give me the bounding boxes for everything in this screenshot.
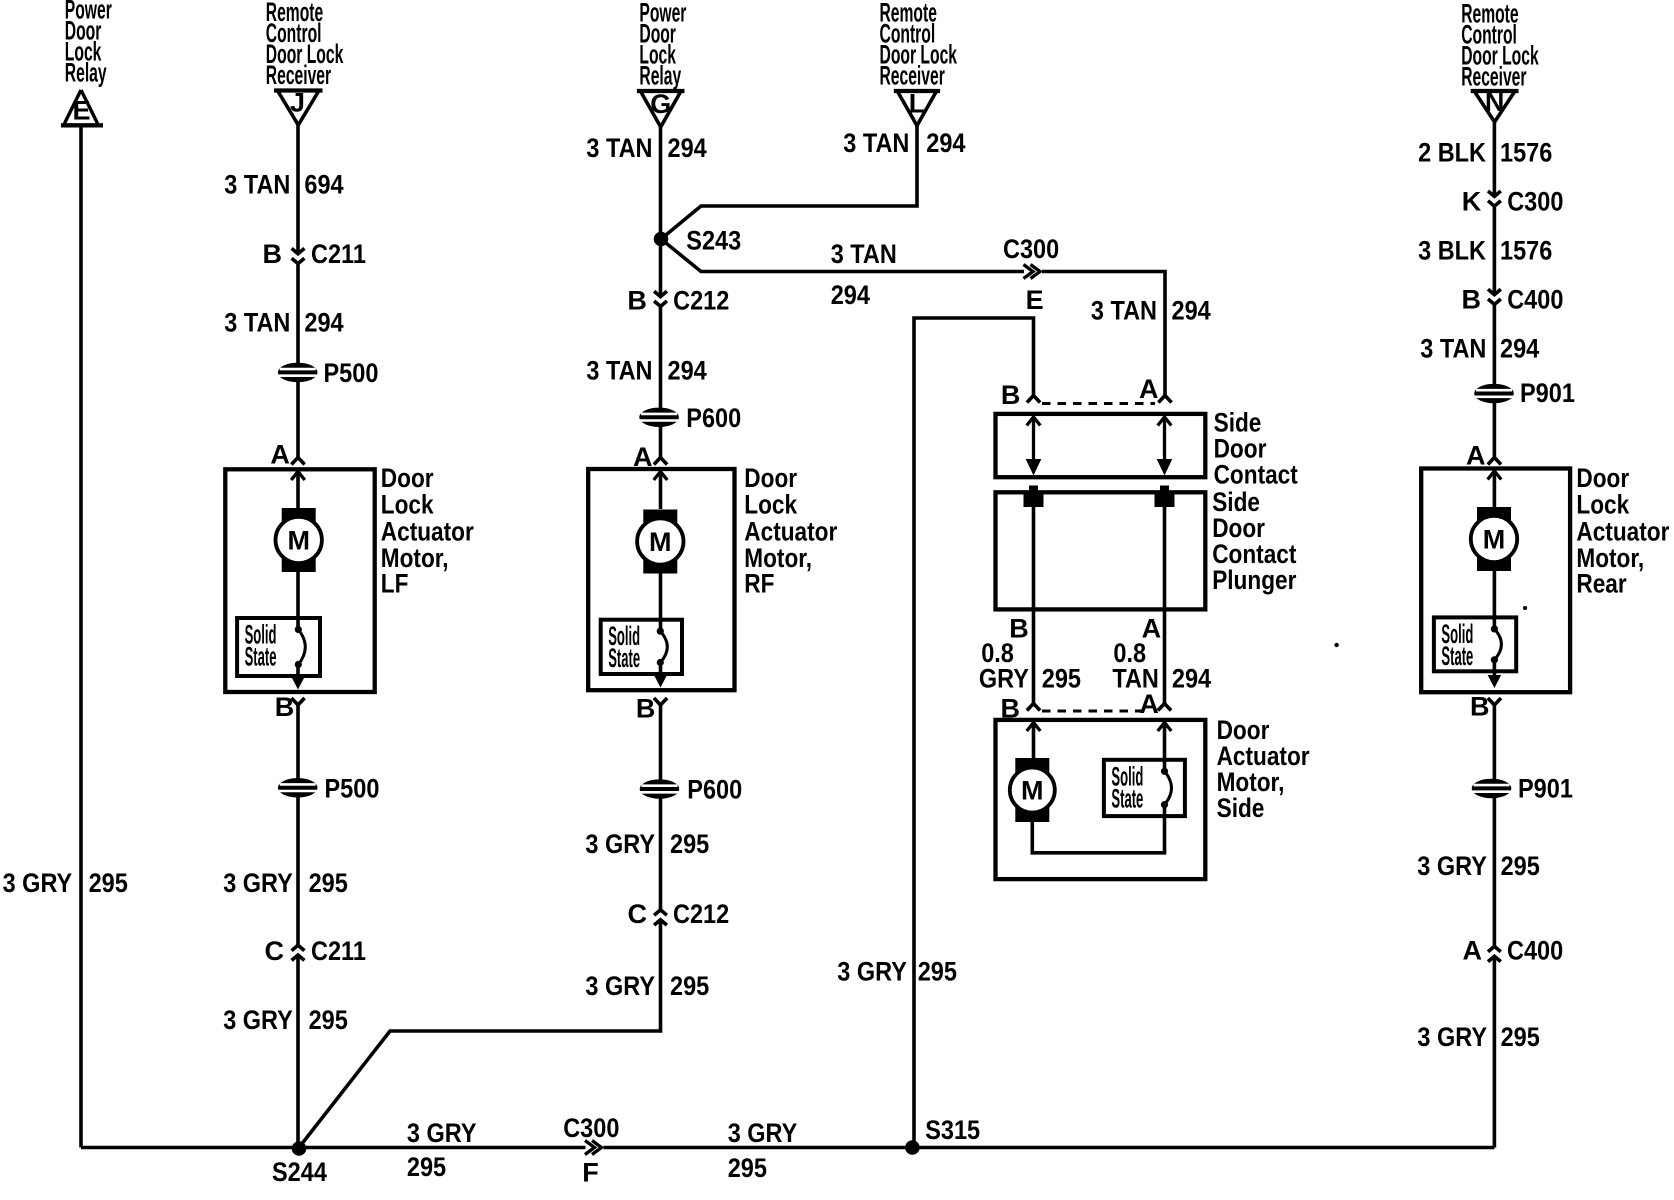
label: Door Lock Actuator Motor, LF (381, 463, 474, 599)
wire label 3 GRY 295 (col2 lower) (585, 971, 709, 1001)
label: Power Door Lock Relay (terminal E) (65, 0, 112, 87)
wire: C212 pin C to splice S244 (3 GRY 295) (299, 920, 661, 1148)
svg-text:P600: P600 (687, 775, 742, 805)
svg-text:295: 295 (89, 868, 128, 898)
connector C300 pin F (563, 1113, 619, 1187)
svg-text:3 TAN: 3 TAN (586, 133, 652, 163)
svg-text:N: N (1485, 87, 1505, 117)
svg-text:C212: C212 (673, 285, 729, 315)
label: Door Actuator Motor, Side (1217, 715, 1310, 823)
svg-text:L: L (909, 89, 926, 119)
terminal N (Remote Control Door Lock Receiver) (1471, 87, 1519, 122)
svg-text:A: A (1139, 374, 1159, 404)
wire label 3 GRY 295 (col4 lower) (1417, 1022, 1539, 1052)
pin B of door lock actuator motor rear (1470, 691, 1501, 721)
dashed connector interface at side door contact (1042, 402, 1155, 405)
solid state module (rear) (1434, 617, 1516, 671)
wire label 3 GRY 295 (col1 upper) (223, 868, 348, 898)
svg-text:3 TAN: 3 TAN (1091, 295, 1157, 325)
svg-text:3 GRY: 3 GRY (223, 1005, 293, 1035)
svg-text:C211: C211 (311, 936, 366, 966)
svg-text:Receiver: Receiver (266, 60, 332, 90)
wire label 0.8 GRY 295 (979, 638, 1081, 694)
svg-text:3 TAN: 3 TAN (224, 170, 290, 200)
svg-text:J: J (290, 88, 305, 118)
label: Remote Control Door Lock Receiver (terminal L) (880, 0, 958, 90)
wire label 3 GRY / 295 (bus left) (407, 1118, 477, 1182)
svg-text:Rear: Rear (1576, 568, 1627, 598)
component box: Side Door Contact Plunger (996, 492, 1206, 609)
svg-text:Side: Side (1217, 793, 1265, 823)
splice S244 (272, 1141, 327, 1187)
svg-text:E: E (1026, 285, 1044, 315)
wire label 3 TAN 294 (col3 top) (843, 128, 965, 158)
svg-text:E: E (72, 96, 90, 126)
svg-text:B: B (275, 692, 295, 722)
svg-text:RF: RF (744, 568, 774, 598)
svg-text:Receiver: Receiver (880, 60, 946, 90)
solid state module (LF) (237, 618, 320, 676)
wire label 3 TAN / 294 (S243 branch) (831, 239, 897, 310)
connector C211 pin C (265, 936, 366, 966)
svg-text:P600: P600 (686, 403, 741, 433)
grommet P600 (lower) (640, 775, 742, 805)
wire: LF internal feed with arrow (291, 472, 305, 510)
svg-text:3 TAN: 3 TAN (831, 239, 897, 269)
svg-text:G: G (650, 89, 671, 119)
grommet P600 (upper) (640, 403, 742, 433)
wire label 3 TAN 294 (col4) (1420, 333, 1539, 363)
svg-text:Relay: Relay (65, 57, 107, 87)
svg-text:State: State (245, 642, 277, 672)
wire: terminal G through splice S243 to C212 pin B (3 TAN 294) (659, 127, 663, 297)
wire label 3 TAN 294 (224, 307, 343, 337)
pin A of door lock actuator motor RF (633, 442, 667, 472)
label: Power Door Lock Relay (terminal G) (639, 0, 686, 90)
svg-text:295: 295 (309, 868, 348, 898)
svg-text:B: B (1470, 691, 1490, 721)
svg-text:Plunger: Plunger (1212, 565, 1297, 595)
wire: C300 pin E to side door contact pin A (3 TAN 294) (1042, 272, 1165, 396)
label: Door Lock Actuator Motor, Rear (1576, 463, 1669, 599)
wire label 2 BLK 1576 (1418, 137, 1552, 167)
label: Remote Control Door Lock Receiver (terminal J) (266, 0, 344, 90)
wire label 3 GRY 295 (S315 drop) (837, 957, 957, 987)
pin B of door lock actuator motor LF (275, 692, 305, 722)
svg-text:M: M (287, 526, 310, 556)
wire: terminal J to connector C211 pin B (3 TAN 694) (296, 125, 300, 254)
wire: side motor bottom link (1032, 805, 1164, 853)
label: Door Lock Actuator Motor, RF (744, 463, 837, 599)
svg-text:Lock: Lock (381, 490, 435, 520)
svg-text:1576: 1576 (1500, 235, 1552, 265)
svg-text:294: 294 (1172, 295, 1211, 325)
svg-text:S244: S244 (272, 1157, 327, 1187)
svg-text:3 TAN: 3 TAN (843, 128, 909, 158)
component box: Door Actuator Motor Side (996, 720, 1206, 879)
svg-text:3 BLK: 3 BLK (1418, 235, 1486, 265)
wire: rear internal feed with arrow (1488, 471, 1502, 509)
svg-text:B: B (1462, 284, 1482, 314)
svg-text:B: B (1001, 380, 1021, 410)
wire: side door contact pin B branch to splice S315 (3 GRY 295) (914, 318, 1034, 1148)
svg-text:Lock: Lock (1576, 490, 1630, 520)
wire label 3 TAN 694 (224, 170, 343, 200)
wire: C211 to P500 to motor LF pin A (3 TAN 294) (296, 263, 300, 458)
svg-text:B: B (636, 693, 656, 723)
svg-text:Door: Door (381, 463, 434, 493)
splice S243 (654, 226, 742, 256)
svg-text:294: 294 (1172, 664, 1211, 694)
svg-text:Lock: Lock (744, 490, 798, 520)
svg-text:M: M (1021, 776, 1044, 806)
solid state module (RF) (601, 620, 682, 674)
svg-text:F: F (582, 1157, 599, 1187)
wire: RF motor to solid state (659, 573, 663, 631)
label: Side Door Contact (1214, 407, 1298, 489)
svg-text:C211: C211 (311, 239, 366, 269)
svg-text:Relay: Relay (639, 60, 681, 90)
solid state module (side) (1104, 760, 1185, 816)
wire label 3 GRY 295 (col1 lower) (223, 1005, 348, 1035)
wire: RF solid state to pin B with arrow (654, 663, 668, 688)
svg-text:3 TAN: 3 TAN (1420, 333, 1486, 363)
svg-text:694: 694 (304, 170, 343, 200)
wire: terminal E to S244 bus (3 GRY 295) (79, 127, 83, 1148)
svg-text:3 TAN: 3 TAN (586, 355, 652, 385)
svg-text:S243: S243 (686, 226, 741, 256)
svg-text:3 GRY: 3 GRY (728, 1118, 798, 1148)
grommet P500 (upper) (278, 358, 378, 388)
svg-text:3 GRY: 3 GRY (585, 971, 655, 1001)
svg-text:Contact: Contact (1214, 459, 1298, 489)
svg-text:C212: C212 (673, 899, 729, 929)
svg-text:295: 295 (918, 957, 957, 987)
connector C400 pin A (1463, 935, 1564, 965)
svg-text:295: 295 (309, 1005, 348, 1035)
svg-text:3 GRY: 3 GRY (585, 829, 655, 859)
svg-text:C300: C300 (563, 1113, 619, 1143)
svg-text:C400: C400 (1507, 935, 1563, 965)
motor M (RF actuator) (637, 510, 683, 574)
component box: Side Door Contact (996, 414, 1206, 477)
svg-text:1576: 1576 (1500, 137, 1552, 167)
svg-text:GRY: GRY (979, 664, 1029, 694)
svg-text:2 BLK: 2 BLK (1418, 137, 1486, 167)
svg-text:294: 294 (668, 355, 707, 385)
svg-text:294: 294 (1500, 333, 1539, 363)
svg-text:K: K (1462, 186, 1482, 216)
wire: motor rear pin B to C400 pin A (3 GRY 295) (1493, 705, 1497, 947)
terminal E (Power Door Lock Relay, up triangle) (61, 90, 103, 126)
svg-text:P901: P901 (1520, 378, 1575, 408)
connector C300 pin E (1003, 234, 1059, 315)
svg-text:3 TAN: 3 TAN (224, 307, 290, 337)
wire: motor RF pin B to C212 pin C (3 GRY 295) (659, 705, 663, 910)
svg-text:P901: P901 (1518, 773, 1573, 803)
label: Side Door Contact Plunger (1212, 487, 1297, 595)
svg-text:B: B (627, 285, 647, 315)
grommet P901 (lower) (1472, 773, 1573, 803)
svg-text:3 GRY: 3 GRY (1417, 1022, 1487, 1052)
wire label 0.8 TAN 294 (1112, 638, 1211, 694)
pin label A (plunger) (1142, 613, 1162, 643)
svg-text:295: 295 (407, 1152, 446, 1182)
svg-text:3 GRY: 3 GRY (407, 1118, 477, 1148)
svg-text:S315: S315 (925, 1115, 980, 1145)
label: Remote Control Door Lock Receiver (terminal N) (1461, 0, 1539, 91)
svg-text:295: 295 (670, 971, 709, 1001)
component box: Door Lock Actuator Motor Rear (1421, 469, 1570, 693)
component box: Door Lock Actuator Motor LF (225, 469, 374, 692)
pin A of side door contact (1139, 374, 1172, 404)
svg-text:A: A (1463, 935, 1483, 965)
pin label B (plunger) (1009, 613, 1029, 643)
pin B of door actuator motor side (1001, 694, 1041, 724)
svg-text:C300: C300 (1003, 234, 1059, 264)
svg-text:LF: LF (381, 568, 409, 598)
pin B of side door contact (1001, 380, 1040, 410)
svg-text:State: State (608, 643, 640, 673)
wire: ground bus S244 to C300 pin F segment (81, 1146, 586, 1150)
motor M (LF actuator) (276, 508, 322, 572)
wire: LF solid state to pin B with arrow (291, 664, 305, 690)
svg-text:B: B (263, 239, 283, 269)
svg-text:P500: P500 (325, 773, 380, 803)
wire: rear motor to solid state (1493, 571, 1497, 629)
svg-text:295: 295 (670, 829, 709, 859)
wire label 3 BLK 1576 (1418, 235, 1552, 265)
plunger symbol (B side) (1024, 486, 1044, 508)
wire: side motor A feed with arrow (1158, 723, 1172, 772)
svg-text:294: 294 (926, 128, 965, 158)
svg-text:3 GRY: 3 GRY (223, 868, 293, 898)
splice S315 (905, 1115, 980, 1155)
wire: terminal N to connector C300 pin K (2 BLK 1576) (1493, 122, 1497, 196)
plunger symbol (A side) (1155, 486, 1175, 508)
connector C400 pin B (1462, 284, 1564, 314)
svg-text:295: 295 (1042, 664, 1081, 694)
motor M (side door actuator) (1010, 758, 1055, 822)
grommet P901 (upper) (1475, 378, 1575, 408)
pin A of door lock actuator motor rear (1466, 440, 1501, 470)
svg-text:A: A (270, 440, 290, 470)
wire: LF motor to solid state (296, 572, 300, 630)
svg-text:295: 295 (728, 1153, 767, 1183)
svg-text:State: State (1441, 641, 1473, 671)
wire: plunger B to door actuator motor side pin B (0.8 GRY 295) (1032, 507, 1036, 704)
terminal G (Power Door Lock Relay) (637, 89, 685, 127)
wire label 3 GRY / 295 (bus right) (728, 1118, 798, 1183)
svg-text:3 GRY: 3 GRY (3, 868, 73, 898)
wire label 3 GRY 295 (left) (3, 868, 128, 898)
svg-text:295: 295 (1501, 1022, 1540, 1052)
svg-text:3 GRY: 3 GRY (837, 957, 907, 987)
svg-text:A: A (1139, 689, 1159, 719)
wire: C300 pin K to C400 pin B (3 BLK 1576) (1493, 206, 1497, 295)
connector C300 pin K (1462, 186, 1564, 216)
speck (1523, 606, 1527, 610)
connector C212 pin B (627, 285, 729, 315)
svg-text:3 GRY: 3 GRY (1417, 851, 1487, 881)
wire: ground bus C300 pin F to rear segment (604, 1146, 1495, 1150)
svg-text:C: C (628, 899, 648, 929)
wire: C211 pin C to splice S244 (3 GRY 295) (296, 955, 300, 1148)
side door contact moving contact arrow at x=1033.5 (1026, 417, 1042, 476)
svg-text:P500: P500 (324, 358, 379, 388)
wire: side motor B feed with arrow (1027, 723, 1041, 761)
wire: C212 to P600 to motor RF pin A (3 TAN 294) (659, 306, 663, 458)
terminal L (Remote Control Door Lock Receiver) (894, 89, 940, 126)
dashed connector interface at door actuator motor side (1042, 709, 1150, 712)
connector C211 pin B (263, 239, 366, 269)
wire label 3 GRY 295 (col2 upper) (585, 829, 709, 859)
side door contact moving contact arrow at x=1164.5 (1157, 417, 1173, 476)
svg-text:Door: Door (744, 463, 797, 493)
terminal J (Remote Control Door Lock Receiver) (274, 88, 323, 125)
svg-text:294: 294 (304, 307, 343, 337)
wire: plunger A to door actuator motor side pin A (0.8 TAN 294) (1163, 507, 1167, 704)
wire: RF internal feed with arrow (654, 472, 668, 510)
wire label 3 TAN 294 (col2 top) (586, 133, 706, 163)
wire: C400 to P901 to motor rear pin A (3 TAN 294) (1493, 304, 1497, 458)
wire label 3 GRY 295 (col4 upper) (1417, 851, 1539, 881)
wire label 3 TAN 294 (col2 mid) (586, 355, 706, 385)
svg-text:M: M (649, 527, 672, 557)
pin A of door lock actuator motor LF (270, 440, 304, 470)
connector C212 pin C (628, 899, 730, 929)
wire: motor LF pin B to C211 pin C (3 GRY 295) (296, 705, 300, 946)
svg-text:C400: C400 (1507, 284, 1563, 314)
wire: terminal L to splice S243 (3 TAN 294) (661, 126, 917, 239)
motor M (rear actuator) (1471, 507, 1517, 571)
svg-text:294: 294 (831, 280, 870, 310)
svg-text:295: 295 (1501, 851, 1540, 881)
svg-text:State: State (1111, 783, 1143, 813)
svg-text:M: M (1483, 525, 1506, 555)
wire label 3 TAN 294 (side door A) (1091, 295, 1211, 325)
svg-text:C300: C300 (1507, 186, 1563, 216)
svg-text:294: 294 (668, 133, 707, 163)
component box: Door Lock Actuator Motor RF (588, 469, 734, 690)
speck (1334, 643, 1338, 647)
pin B of door lock actuator motor RF (636, 693, 667, 723)
wire: C400 pin A to bottom bus (3 GRY 295) (1493, 956, 1497, 1147)
wire: splice S243 to connector C300 pin E (3 TAN 294) (661, 239, 1024, 272)
svg-text:Door: Door (1576, 463, 1629, 493)
wire: rear solid state to pin B with arrow (1488, 660, 1502, 688)
pin A of door actuator motor side (1139, 689, 1171, 719)
svg-text:A: A (1466, 440, 1486, 470)
grommet P500 (lower) (278, 773, 379, 803)
svg-text:C: C (265, 936, 285, 966)
